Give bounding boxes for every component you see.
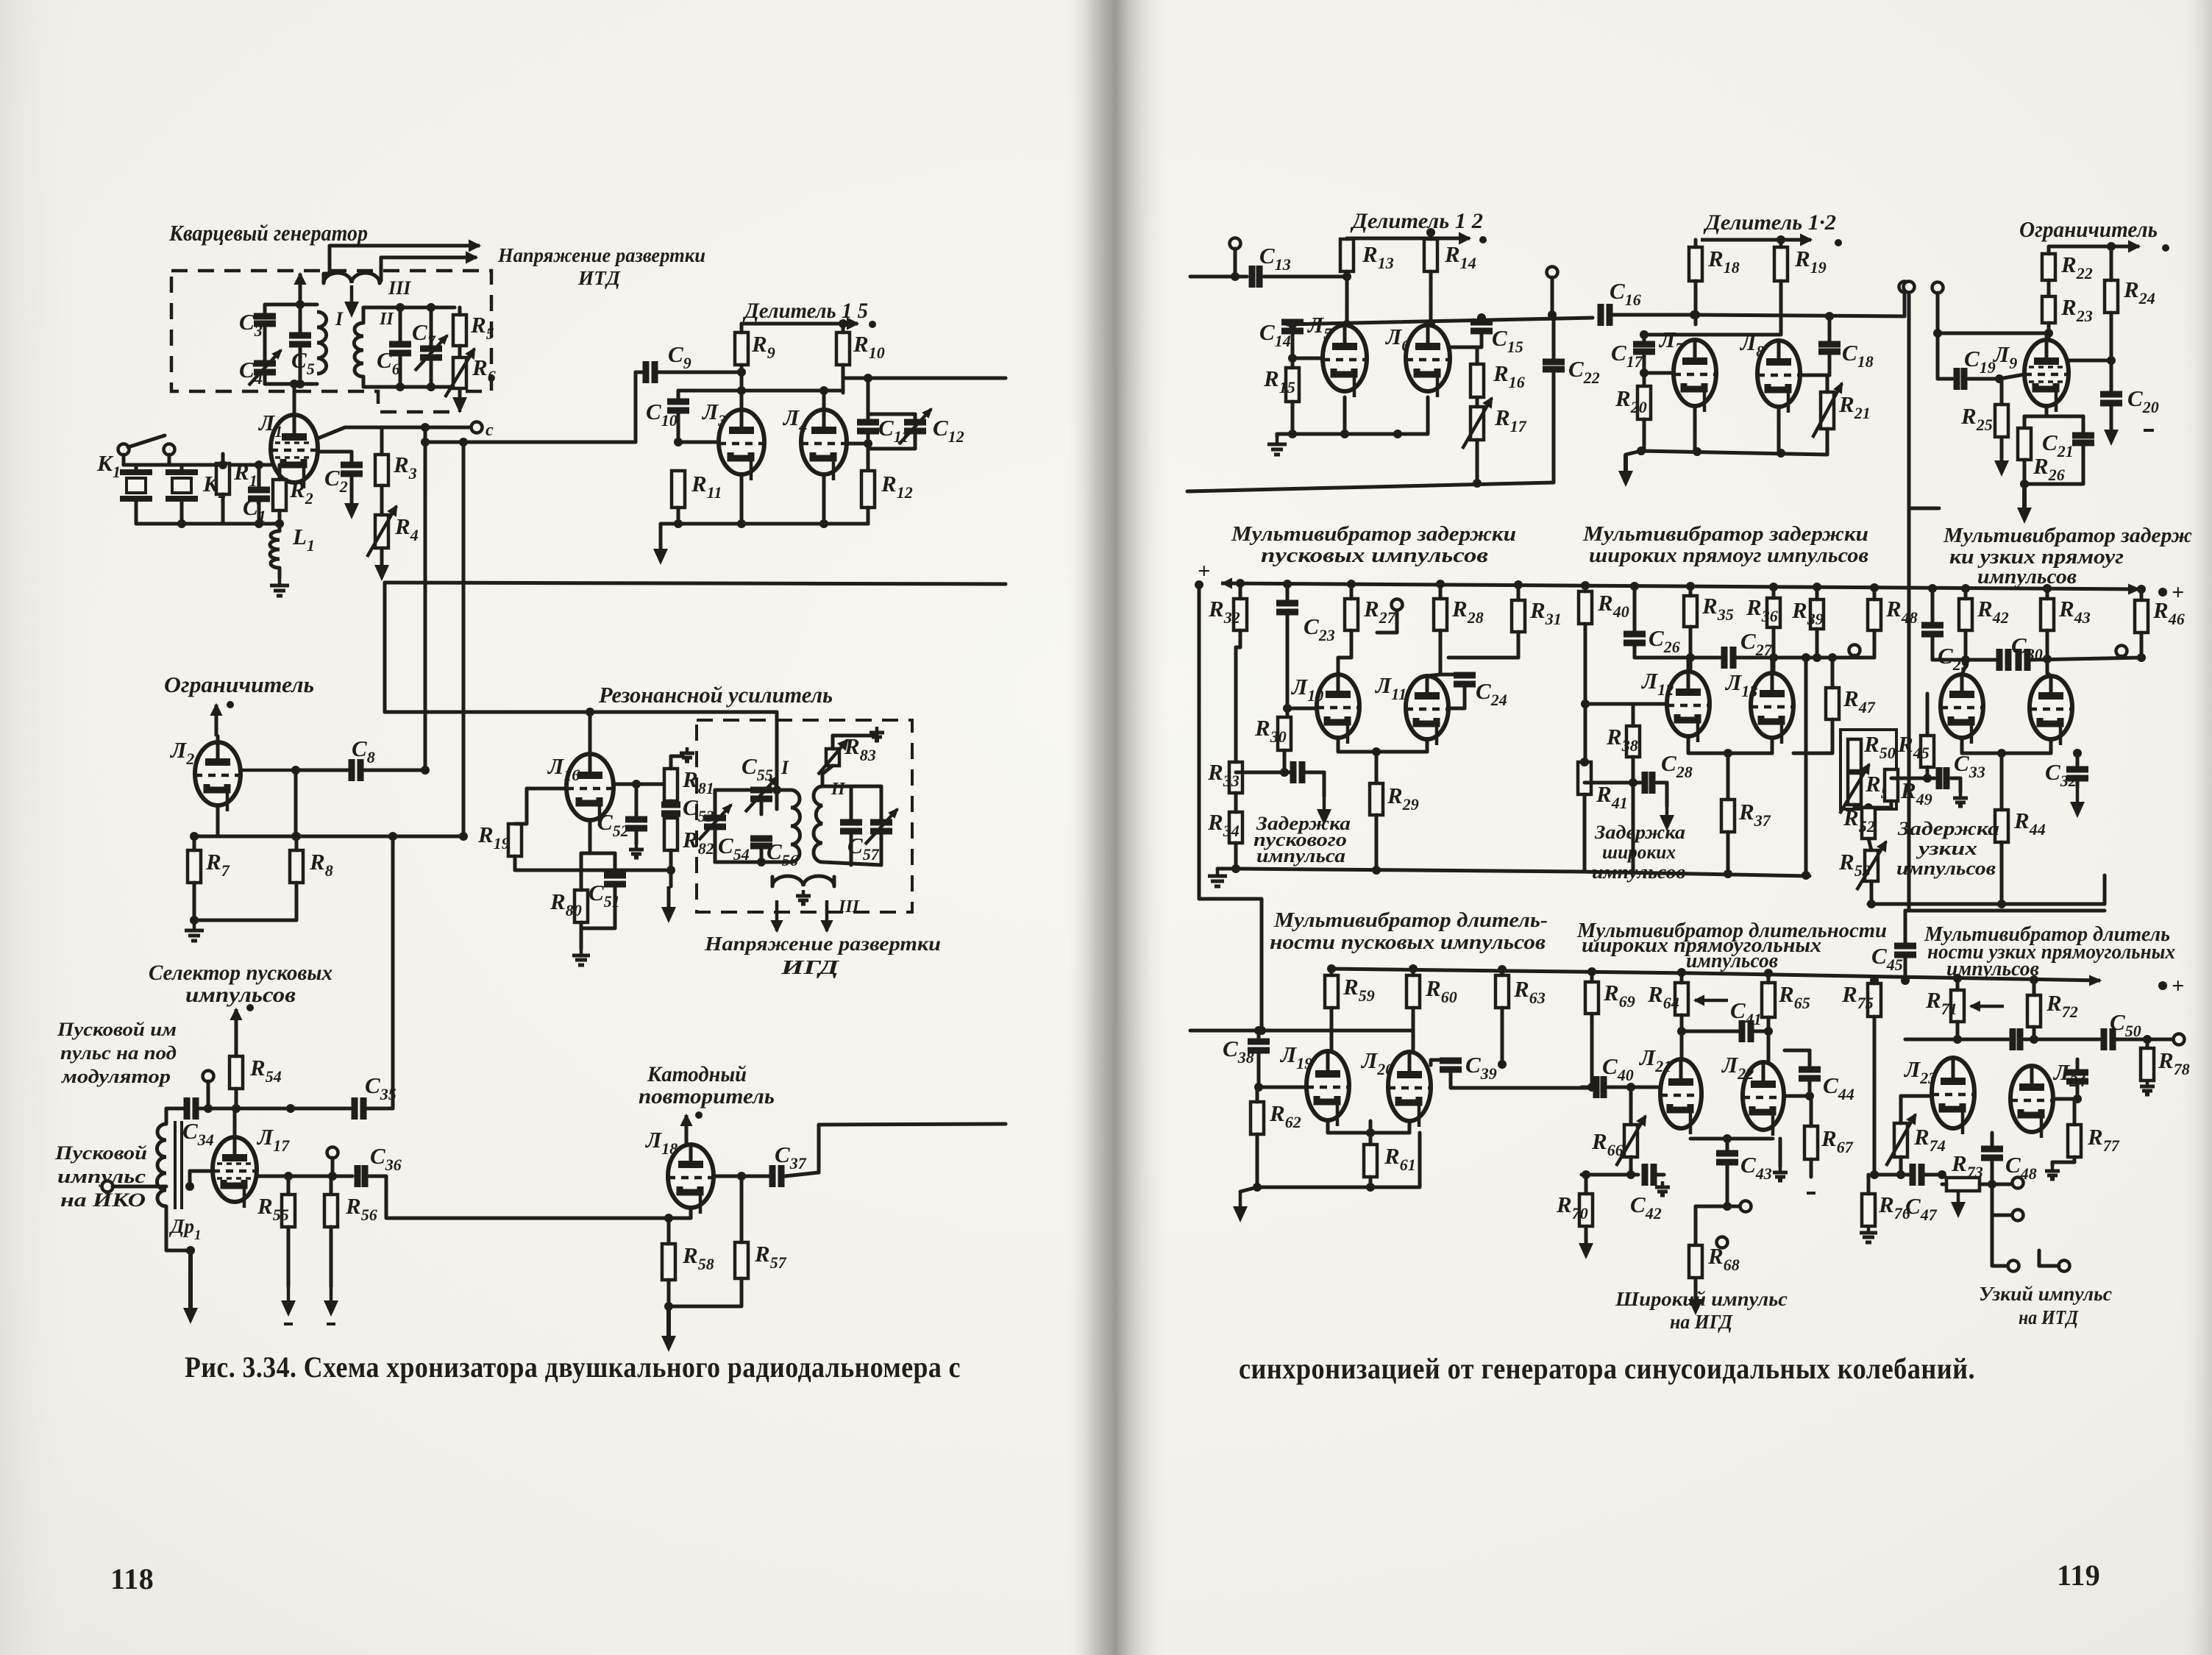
wire [1292,357,1323,360]
wire [380,427,384,434]
wire [1956,1022,1960,1039]
label C11 [878,415,908,446]
wire [1348,233,1470,243]
label Lam17 [256,1124,290,1155]
wire [1779,1139,1782,1167]
resistor R12 [861,471,875,508]
wire [1369,1177,1373,1187]
svg-text:Мультивибратор задержки: Мультивибратор задержки [1582,522,1868,546]
wire [1784,1095,1810,1098]
wire [295,274,305,305]
junction [1473,479,1482,488]
wire [868,431,915,449]
junction [674,438,683,446]
junction [290,380,299,388]
wire [299,305,302,335]
wire [2049,739,2053,753]
svg-text:пульс на под: пульс на под [60,1042,177,1064]
capacitor C55 [745,777,778,812]
wire [1427,675,1440,676]
resistor R57 [735,1242,748,1278]
wire [1323,772,1326,796]
wire [2140,633,2144,658]
label C9 [668,341,691,372]
wire [1956,978,1960,990]
junction [1988,1180,1996,1189]
svg-text:ности пусковых импульсов: ности пусковых импульсов [1270,930,1546,954]
junction [1802,871,1810,880]
wire [330,241,480,251]
wire [2146,1039,2149,1048]
wire [777,790,791,809]
capacitor C7 [415,335,447,371]
junction [296,300,305,309]
wire [287,1227,291,1286]
wire [1873,588,1877,599]
wire [1552,370,1556,483]
wire [194,835,463,839]
wire [1779,240,1783,247]
wire [1199,585,1262,1031]
junction [2107,242,2116,251]
wire [850,786,853,822]
terminal [2008,1261,2019,1272]
label C38 [1223,1036,1254,1067]
resistor R36 [1767,598,1780,627]
svg-text:ИТД: ИТД [577,267,622,289]
label R73 [1951,1150,1983,1181]
junction [1288,320,1297,329]
tube Л24 [2010,1066,2053,1138]
resistor R69 [1585,982,1598,1014]
junction [1777,449,1785,458]
label C45 [1871,943,1903,974]
text Задержка [1256,813,1351,834]
svg-text:Широкий импульс: Широкий импульс [1615,1288,1788,1310]
label C39 [1465,1052,1497,1083]
capacitor C40 [1596,1076,1604,1098]
resistor R22 [2042,254,2055,280]
wire [1807,1192,1816,1195]
label C2 [324,465,348,496]
wire [168,455,171,465]
label R51 [1865,771,1897,802]
wire [1688,736,1772,753]
junction [1343,320,1351,329]
junction [1580,758,1589,766]
wire [350,474,354,488]
text II [831,780,846,799]
junction [674,519,683,528]
label C26 [1649,625,1680,656]
junction [2107,356,2116,365]
wire [1907,292,1911,911]
junction [1626,1083,1635,1092]
wire [1190,1029,1412,1033]
label R14 [1444,241,1476,272]
junction [275,519,284,528]
wire [669,1217,691,1220]
label R48 [1885,596,1918,627]
resistor R55 [282,1195,295,1227]
wire [2039,1250,2059,1266]
wire [1440,673,1465,677]
wire [367,1107,393,1111]
label Lam5 [1306,312,1331,343]
terminal [1230,238,1241,249]
junction [1693,447,1701,456]
text Пусковой [54,1142,147,1164]
wire [295,836,299,850]
label R47 [1843,686,1876,716]
junction [1997,900,2006,908]
wire [822,785,881,789]
wire [278,510,282,524]
junction [427,382,435,391]
capacitor C23 [1276,603,1298,612]
svg-text:пусковых импульсов: пусковых импульсов [1261,544,1488,567]
resistor R50 [1848,739,1861,771]
wire [1584,624,1587,762]
wire [867,378,870,414]
label Lam20 [1360,1047,1393,1078]
junction [421,766,430,775]
svg-text:широких прямоуг импульсов: широких прямоуг импульсов [1589,544,1868,567]
wire [1257,1050,1261,1087]
wire [1375,815,1379,870]
label C21 [2042,430,2074,460]
wire [1808,1050,1812,1070]
wire [216,805,220,836]
wire [1690,656,1721,660]
capacitor C3 [254,316,276,324]
svg-text:Рис. 3.34. Схема хронизатора д: Рис. 3.34. Схема хронизатора двушкальног… [185,1350,961,1384]
svg-text:Пусковой: Пусковой [54,1142,147,1164]
wire [515,822,527,826]
tube Л5 [1323,325,1367,397]
resistor R51 [1840,764,1869,814]
junction [1372,866,1381,875]
wire [1517,585,1521,600]
wire [1584,586,1587,591]
label R4 [394,513,419,544]
terminal [1740,1201,1752,1212]
wire [2116,1038,2174,1042]
wire [1256,1134,1259,1187]
resistor R8 [290,850,303,883]
wire [833,734,877,738]
resistor R53 [1857,841,1886,890]
ground [344,488,359,519]
label R60 [1425,975,1457,1006]
wire [1694,1206,1698,1245]
wire [689,1208,693,1218]
wire [1287,707,1317,711]
text ИТД [577,267,622,289]
wire [1338,738,1427,752]
wire [194,919,296,922]
wire [1257,1031,1261,1042]
wire [430,307,433,348]
resistor R47 [1826,688,1839,719]
svg-text:+: + [1198,559,1210,583]
text широких прямоуг импульсов [1589,544,1868,567]
wire [1369,1133,1373,1145]
label R40 [1597,590,1629,621]
capacitor C46 [2066,1072,2088,1081]
terminal [1932,282,1943,293]
capacitor C48 [1981,1149,2003,1158]
junction [1343,272,1351,281]
text Катодный [647,1062,747,1086]
label K2 [202,471,227,502]
label R37 [1738,799,1771,830]
tube Л18 [668,1145,714,1214]
label C1 [243,494,266,525]
label C51 [588,880,620,911]
resistor R18 [1689,247,1702,281]
wire [2023,416,2027,428]
resistor R77 [2068,1125,2081,1157]
wire [1868,839,1871,850]
wire [515,856,666,870]
junction [1769,653,1778,662]
label R3 [393,452,417,483]
svg-text:I: I [335,308,344,330]
inductor T1 [157,1124,166,1206]
wire [1802,374,1829,377]
wire [2103,875,2107,904]
wire [1236,869,1810,876]
tube Л13 [1751,673,1793,744]
junction [1283,704,1292,713]
junction [1764,969,1773,978]
svg-text:III: III [838,897,861,917]
wire [1899,1157,1903,1175]
wire [293,384,296,415]
svg-text:Кварцевый генератор: Кварцевый генератор [168,220,368,246]
wire [1810,1159,1813,1177]
junction [421,438,430,446]
svg-text:на ИКО: на ИКО [60,1189,146,1211]
wire [1448,684,1465,708]
wire [1345,238,1349,239]
wire [1991,1133,1994,1150]
junction [2137,585,2146,594]
resistor R48 [1868,599,1881,630]
wire [1909,507,1939,510]
resistor R65 [1762,983,1775,1017]
wire [715,789,761,792]
wire [822,900,832,931]
label R68 [1707,1243,1740,1274]
capacitor C58 [865,809,897,844]
wire [740,324,744,332]
svg-text:Ограничитель: Ограничитель [2019,216,2158,242]
junction [1953,974,1962,983]
wire [1287,318,1593,324]
junction [1581,581,1590,590]
label Lam24 [2052,1059,2085,1090]
text ности узких прямоугольных [1927,940,2175,964]
junction [1997,749,2006,758]
wire [1962,666,1966,675]
label R58 [682,1242,714,1273]
junction [1231,864,1240,873]
wire [1701,235,1811,245]
tube Л9 [2024,340,2069,412]
ground [1951,1187,1966,1218]
resistor R61 [1364,1145,1377,1177]
resistor R29 [1370,783,1383,815]
junction [1582,1170,1590,1179]
resistor R37 [1721,800,1735,832]
wire [2047,246,2051,254]
wire [223,522,280,526]
wire [677,508,680,524]
junction [1366,1128,1375,1137]
junction [869,321,876,328]
wire [363,377,455,387]
junction [1686,582,1695,591]
wire [2024,1038,2099,1042]
wire [1236,771,1284,775]
ground [869,727,884,741]
wire [1816,629,1819,658]
junction [1288,354,1297,363]
svg-text:Мультивибратор длитель-: Мультивибратор длитель- [1273,908,1548,932]
label C47 [1905,1193,1938,1224]
junction [1548,310,1557,319]
wire [221,494,225,524]
svg-text:Напряжение развертки: Напряжение развертки [704,933,941,955]
ground [2017,488,2032,524]
ground [661,1306,676,1352]
capacitor C8 [352,759,360,781]
junction [1253,1183,1262,1192]
text на ИКО [60,1189,146,1211]
wire [1964,630,1968,666]
label C33 [1954,750,1985,781]
label R20 [1615,385,1647,416]
junction [2158,981,2167,990]
junction [1231,272,1240,281]
wire [1643,419,1646,451]
wire [2073,1099,2077,1125]
wire [1608,1086,1660,1089]
label C52 [597,809,629,840]
svg-text:Катодный: Катодный [647,1062,747,1086]
text Напряжение развертки [497,244,705,266]
wire [2049,241,2139,252]
junction [2043,584,2052,593]
junction [291,832,300,841]
wire [1828,352,1832,375]
wire [2024,415,2083,419]
ground [2140,1081,2155,1095]
wire [669,870,673,886]
wire [1632,757,1635,872]
resistor R73 [1946,1178,1980,1191]
label R10 [853,331,885,362]
svg-text:Делитель 1·2: Делитель 1·2 [1703,210,1836,235]
wire [1853,655,1857,658]
junction [695,1111,703,1119]
text ИГД [780,956,841,978]
junction [388,832,397,841]
label C14 [1259,319,1291,350]
label C32 [2045,759,2077,790]
ground [1208,869,1227,886]
label R46 [2152,597,2185,628]
wire [1291,331,1295,358]
wire [1925,1173,1942,1177]
text импульсов [185,983,296,1007]
junction [632,780,641,789]
wire [1644,371,1674,375]
wire [1999,379,2002,405]
junction [204,1104,213,1113]
wire [284,1323,335,1325]
junction [1236,579,1245,588]
wire [785,1124,1006,1176]
wire [1451,346,1477,349]
tube Л11 [1406,676,1448,745]
resistor R74 [1886,1114,1916,1166]
junction [1640,330,1649,339]
wire [714,1175,769,1178]
label R80 [550,889,582,919]
wire [369,1176,669,1218]
svg-text:c: c [486,421,494,440]
wire [430,358,433,387]
label R74 [1913,1124,1946,1155]
capacitor C15 [1470,322,1493,331]
text c [486,421,494,440]
text Мультивибратор задерж [1943,524,2192,547]
wire [1936,293,1940,379]
ground [1618,455,1633,487]
wire [1873,980,1877,983]
junction [1587,1083,1596,1092]
junction [459,438,468,446]
wire [1448,656,1518,660]
wire [1585,781,1640,785]
wire [296,769,348,772]
wire [265,305,317,315]
wire [580,928,583,949]
tube Л12 [1667,672,1710,742]
junction [1372,747,1381,756]
resistor R16 [1470,364,1484,397]
text Делитель 1 2 [1350,209,1483,233]
label Lam7 [1658,327,1684,357]
wire [1635,656,1690,660]
inductor I_III [324,273,380,283]
wire [1694,315,1905,316]
junction [1677,1027,1686,1036]
wire [614,783,671,786]
label C56 [767,839,798,869]
wire [822,766,833,786]
label R16 [1493,360,1525,391]
resistor R62 [1251,1102,1264,1134]
capacitor C11 [857,422,879,431]
label R42 [1977,596,2009,627]
text III [388,277,411,299]
svg-text:импульсов: импульсов [1977,565,2077,588]
capacitor C51 [604,875,626,884]
